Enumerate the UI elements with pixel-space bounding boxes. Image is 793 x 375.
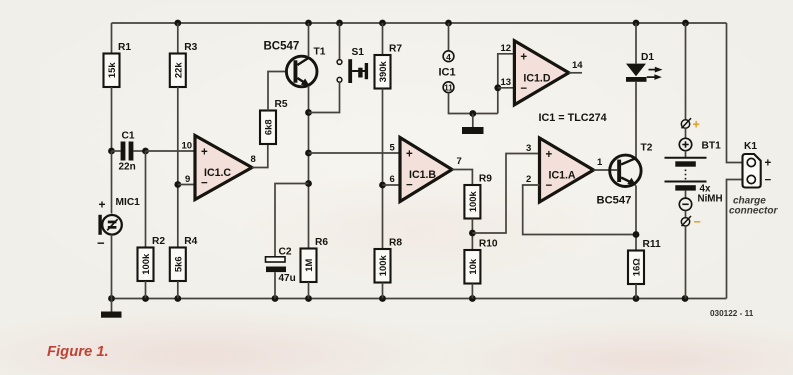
wire IC1.D pin 13 [498,87,515,89]
wire top supply rail [112,22,727,24]
op-amp IC1.B [400,138,452,202]
node pin6 junction [379,182,386,189]
svg-text:−: − [694,215,701,229]
link symbol top (charge tap +) [681,120,689,128]
resistor R11 [628,239,661,284]
svg-text:−: − [546,180,553,192]
capacitor C2 [266,257,287,299]
svg-text:R10: R10 [479,239,498,250]
wire S1 bottom to emitter node [309,82,340,112]
wire R10 bottom lead [471,284,473,299]
microphone MIC1 [98,215,121,235]
svg-text:R6: R6 [315,237,328,248]
svg-text:390k: 390k [377,61,388,83]
svg-text:+: + [99,198,106,212]
junction on top rail (T1 collector) [305,20,312,27]
svg-text:NiMH: NiMH [698,194,723,205]
svg-text:10k: 10k [467,258,478,274]
junction on bottom rail (R2) [142,295,149,302]
wire tap to BT1 plus [685,128,687,138]
wire IC1 pin4 lead [448,23,450,51]
svg-text:+: + [201,146,208,158]
junction on top rail (IC1 pin4) [445,20,452,27]
node pin5 junction [305,150,312,157]
svg-text:Figure 1.: Figure 1. [47,344,109,360]
svg-text:S1: S1 [352,47,365,58]
svg-text:C2: C2 [279,247,292,258]
wire BT1 to cell1 [685,151,687,158]
junction on bottom rail (R10) [469,295,476,302]
wire emitter node to IC1.B pin 5 [309,152,401,154]
svg-text:BC547: BC547 [264,41,300,53]
svg-text:5: 5 [390,143,396,154]
svg-text:7: 7 [457,156,462,167]
LED D1 [626,64,663,82]
wire D1 top lead [635,23,637,64]
resistor R2 [138,236,166,281]
resistor R4 [170,236,198,281]
wire cell2 to minus terminal [685,191,687,199]
op-amp IC1.A [540,138,594,202]
pin circle 4 (IC1 supply) [443,51,454,62]
wire R1 top lead [111,23,113,54]
switch S1 [337,59,368,83]
svg-text:12: 12 [501,43,512,54]
wire R5 to T1 base [268,72,287,111]
svg-text:R4: R4 [184,236,197,247]
wire bottom ground rail [112,298,727,300]
node T2 emitter junction [633,231,640,238]
junction on top rail (D1) [633,20,640,27]
svg-text:−: − [201,178,208,190]
svg-text:1M: 1M [303,259,314,272]
junction on top rail (S1) [336,20,343,27]
transistor T2 [610,155,641,186]
wire R3 top lead [177,23,179,54]
junction on top rail (battery) [682,20,689,27]
resistor R9 [464,174,492,219]
svg-text:connector: connector [729,206,778,217]
svg-text:−: − [765,175,772,187]
svg-text:030122 - 11: 030122 - 11 [710,309,754,318]
link symbol bottom (charge tap -) [681,218,689,226]
junction on top rail (R7) [379,20,386,27]
svg-text:BC547: BC547 [597,195,632,207]
wire IC1.B output to R9 [452,170,472,186]
svg-text:100k: 100k [140,253,151,275]
svg-text:22n: 22n [119,162,136,173]
resistor R3 [170,42,198,87]
wire minus terminal to tap [685,211,687,218]
svg-text:MIC1: MIC1 [116,197,141,208]
wire supply to K1 plus [727,23,744,163]
junction on bottom rail (R11) [633,295,640,302]
wire R6 bottom lead [308,282,310,299]
node pin10 junction [142,148,149,155]
capacitor C1 [112,142,146,161]
svg-text:1: 1 [597,157,603,168]
junction on bottom rail (R4) [174,295,181,302]
svg-text:11: 11 [444,84,453,93]
node IC1 ground junction [469,110,476,117]
svg-text:6k8: 6k8 [263,119,274,135]
resistor R6 [301,237,329,282]
op-amp IC1.C [195,136,252,200]
wire battery top lead [685,23,687,120]
svg-text:IC1 = TLC274: IC1 = TLC274 [539,112,607,124]
resistor R5 [260,99,288,144]
svg-text:100k: 100k [377,255,388,277]
wire divider to IC1.A pin 3 [472,154,539,234]
wire R7 top lead [382,23,384,55]
wire D1 to T2 collector [635,82,637,159]
svg-text:C1: C1 [122,131,135,142]
junction on bottom rail (C2) [272,295,279,302]
svg-text:IC1.A: IC1.A [549,170,576,182]
connector K1 [743,154,761,188]
svg-text:10: 10 [182,141,193,152]
svg-text:4: 4 [446,52,451,62]
wire R3 bottom lead [177,87,179,248]
battery minus terminal circle [679,198,691,210]
svg-text:6: 6 [390,174,395,185]
wire R4 bottom lead [177,281,179,299]
node T1 emitter / S1 junction [305,109,312,116]
svg-text:D1: D1 [641,52,654,63]
svg-text:8: 8 [251,154,256,165]
svg-text:100k: 100k [467,191,478,213]
svg-text:+: + [765,158,772,170]
node pin13 junction [494,84,501,91]
wire R9 to R10 [471,219,473,251]
svg-text:15k: 15k [106,62,117,78]
battery BT1 plus terminal circle [679,138,691,150]
pin circle 11 (IC1 supply) [443,82,454,93]
svg-text:IC1: IC1 [439,67,456,79]
svg-text:IC1.C: IC1.C [204,167,231,179]
wire MIC1 bottom lead [111,235,113,299]
svg-text:R11: R11 [643,239,661,250]
junction on top rail (R3) [174,20,181,27]
svg-text:−: − [97,236,105,251]
svg-text:9: 9 [185,174,190,185]
svg-text:+: + [520,52,527,64]
ground symbol IC1 [472,114,474,128]
svg-text:IC1.D: IC1.D [523,72,550,84]
svg-text:R5: R5 [275,99,288,110]
svg-text:BT1: BT1 [702,141,722,152]
node C2 junction [305,180,312,187]
wire to IC1.C pin 9 [178,184,195,186]
svg-text:5k6: 5k6 [172,256,183,272]
wire C1 to IC1.C pin 10 [146,150,196,152]
resistor R10 [464,239,498,284]
ground symbol left [111,299,113,312]
svg-text:T2: T2 [641,143,653,154]
op-amp IC1.D [514,41,568,105]
svg-text:+: + [693,118,700,132]
wire R7 bottom lead [382,89,384,250]
svg-text:R9: R9 [479,174,492,185]
junction on bottom rail (R8) [379,295,386,302]
wire IC1.A pin 2 feedback [523,185,636,235]
wire battery bottom lead [685,226,687,299]
wire C2 branch [275,184,309,257]
battery dotted link [685,170,687,180]
svg-text:IC1.B: IC1.B [409,169,436,181]
wire IC1 pin11 to ground node [449,93,498,114]
wire R8 bottom lead [382,283,384,299]
svg-text:R3: R3 [184,42,197,53]
svg-text:R1: R1 [118,42,131,53]
svg-text:+: + [406,148,413,160]
wire S1 top lead [339,23,341,60]
wire R1 bottom lead [111,87,113,151]
wire to IC1.B pin 6 [383,184,401,186]
svg-text:13: 13 [501,77,512,88]
svg-text:K1: K1 [744,141,757,152]
wire to IC1.D inputs [498,54,515,114]
wire R2 top lead [145,151,147,248]
wire R2 bottom lead [145,281,147,299]
svg-text:−: − [406,180,413,192]
resistor R7 [375,44,403,89]
resistor R8 [375,238,403,283]
svg-text:3: 3 [526,143,531,154]
wire T2 emitter to R11 [635,186,637,251]
node R9/R10 junction [469,230,476,237]
svg-text:T1: T1 [314,47,326,58]
wire T1 emitter down [308,86,310,249]
svg-text:+: + [546,149,553,161]
wire IC1.D output stub [569,72,582,74]
node pin9 junction [174,181,181,188]
svg-text:47u: 47u [279,273,296,284]
wire R11 bottom lead [635,284,637,299]
wire T1 collector [308,23,310,57]
junction on bottom rail (R6) [305,295,312,302]
resistor R1 [104,42,132,87]
wire IC1.C output to R5 [252,144,268,167]
svg-text:R2: R2 [152,236,165,247]
junction on bottom rail (ground) [108,295,115,302]
wire MIC1 top lead [111,151,113,214]
wire IC1.A output to T2 base [594,169,618,171]
svg-text:2: 2 [526,174,531,185]
svg-text:−: − [520,83,527,95]
svg-text:22k: 22k [172,62,183,78]
junction on bottom rail (battery) [682,295,689,302]
battery cell 2 [665,181,707,183]
node C1 left junction [108,148,115,155]
svg-text:16Ω: 16Ω [631,258,642,276]
svg-text:R8: R8 [389,238,402,249]
transistor T1 [286,56,317,87]
svg-text:R7: R7 [389,44,402,55]
battery cell 1 [665,157,707,159]
svg-text:14: 14 [572,60,583,71]
wire K1 minus to ground [727,180,744,299]
